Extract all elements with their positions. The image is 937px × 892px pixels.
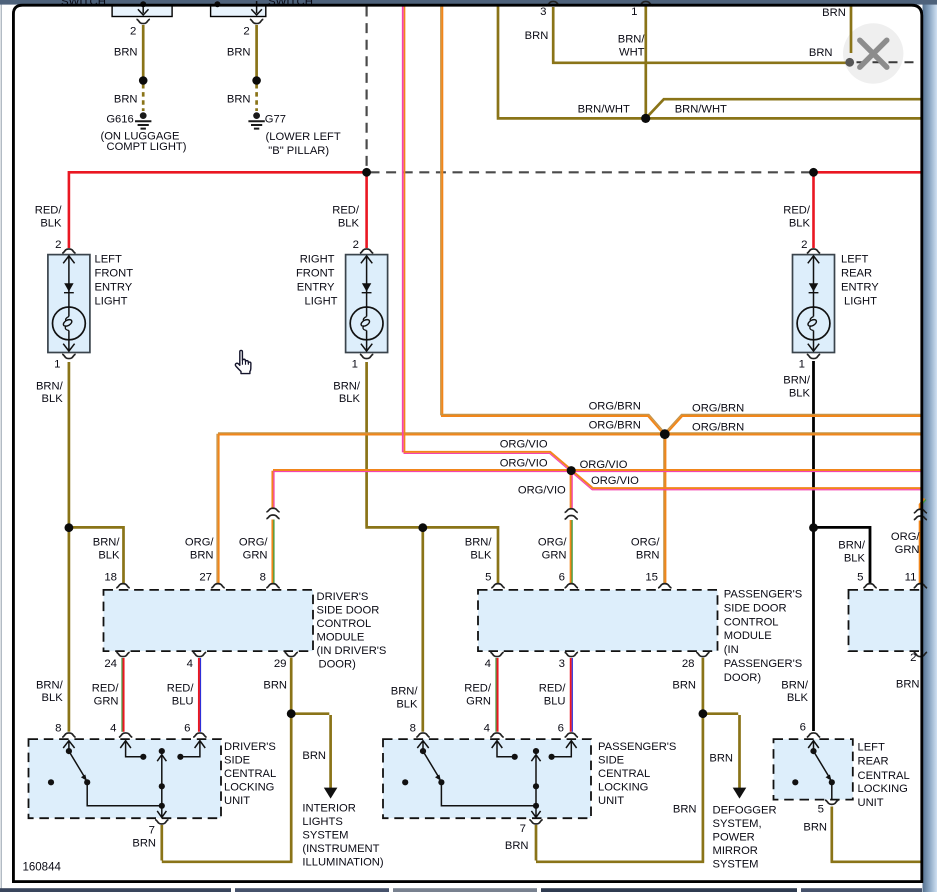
svg-text:BRN: BRN xyxy=(227,47,251,59)
svg-text:BLK: BLK xyxy=(844,553,866,565)
svg-text:ORG/BRN: ORG/BRN xyxy=(589,401,641,413)
svg-text:2: 2 xyxy=(130,26,136,38)
wire BRN passenger pin28 to defogger and pin7 loop xyxy=(536,658,740,862)
svg-text:BRN/: BRN/ xyxy=(838,540,866,552)
arrow to interior lights system xyxy=(324,788,338,799)
svg-text:UNIT: UNIT xyxy=(858,797,884,809)
svg-text:BRN: BRN xyxy=(822,7,846,19)
svg-text:REAR: REAR xyxy=(841,268,872,280)
svg-text:POWER: POWER xyxy=(713,832,755,844)
svg-text:BRN: BRN xyxy=(114,47,138,59)
svg-text:(IN DRIVER'S: (IN DRIVER'S xyxy=(317,645,387,657)
svg-text:FRONT: FRONT xyxy=(296,268,335,280)
left screen edge line xyxy=(1,0,2,892)
right blue gradient strip xyxy=(923,0,937,892)
wire BRN/WHT from pin 1 down xyxy=(644,6,647,117)
svg-text:1: 1 xyxy=(54,359,60,371)
wire RED/BLU driver module pin4 to locking pin6 xyxy=(198,658,200,732)
svg-text:LOCKING: LOCKING xyxy=(224,782,274,794)
svg-text:BRN: BRN xyxy=(525,30,549,42)
lamp L3 left rear entry light xyxy=(793,249,835,359)
svg-text:8: 8 xyxy=(55,723,61,735)
node junction BRN driver xyxy=(287,709,296,718)
svg-text:BRN/: BRN/ xyxy=(93,537,121,549)
ground G616 xyxy=(135,112,151,128)
svg-text:LIGHTS: LIGHTS xyxy=(302,816,342,828)
wire BRN/BLK right front light to passenger module/locking xyxy=(365,362,498,732)
svg-text:RED/: RED/ xyxy=(167,683,195,695)
inline connector on ORG wire at right module pin11 xyxy=(914,509,927,520)
node junction BRN passenger xyxy=(699,709,708,718)
svg-text:BLK: BLK xyxy=(42,692,64,704)
svg-text:G616: G616 xyxy=(106,114,133,126)
svg-text:SYSTEM: SYSTEM xyxy=(713,859,759,871)
locking unit K3 left rear central locking unit xyxy=(774,733,853,804)
svg-text:FRONT: FRONT xyxy=(95,268,134,280)
svg-text:2: 2 xyxy=(55,239,61,251)
svg-text:BLU: BLU xyxy=(544,696,566,708)
svg-text:REAR: REAR xyxy=(858,756,889,768)
svg-text:160844: 160844 xyxy=(23,862,62,874)
svg-text:(INSTRUMENT: (INSTRUMENT xyxy=(302,843,379,855)
svg-text:LIGHT: LIGHT xyxy=(305,296,338,308)
mouse cursor (hand pointer) xyxy=(235,350,251,373)
svg-text:CONTROL: CONTROL xyxy=(317,618,372,630)
svg-text:ORG/BRN: ORG/BRN xyxy=(692,403,744,415)
svg-text:1: 1 xyxy=(631,6,637,18)
svg-text:SIDE: SIDE xyxy=(224,755,250,767)
svg-text:BLK: BLK xyxy=(98,550,120,562)
bottom next-page segments xyxy=(0,888,231,892)
pin 2 connector switch S1 xyxy=(137,19,150,23)
svg-text:GRN: GRN xyxy=(466,696,491,708)
svg-text:BRN: BRN xyxy=(803,822,827,834)
svg-text:BRN/: BRN/ xyxy=(333,381,361,393)
svg-text:BRN: BRN xyxy=(190,550,214,562)
wire BRN/WHT from top left vertical xyxy=(497,6,922,118)
wire ORG/VIO drop to passenger module pin6 connector xyxy=(570,471,572,509)
lamp L2 right front entry light xyxy=(346,249,388,359)
svg-text:ORG/BRN: ORG/BRN xyxy=(692,422,744,434)
svg-text:DRIVER'S: DRIVER'S xyxy=(317,591,369,603)
svg-text:BRN/WHT: BRN/WHT xyxy=(578,104,630,116)
svg-text:BRN/: BRN/ xyxy=(465,537,493,549)
node junction dot switch2 xyxy=(252,76,261,85)
svg-text:BLK: BLK xyxy=(42,393,64,405)
svg-text:G77: G77 xyxy=(265,114,286,126)
wire BRN/BLK left front light to driver module/locking xyxy=(69,362,124,732)
svg-text:BRN: BRN xyxy=(636,550,660,562)
svg-text:UNIT: UNIT xyxy=(598,795,624,807)
svg-text:PASSENGER'S: PASSENGER'S xyxy=(724,589,802,601)
svg-text:SIDE: SIDE xyxy=(598,755,624,767)
svg-text:BRN/: BRN/ xyxy=(781,680,809,692)
svg-text:BRN: BRN xyxy=(809,47,833,59)
svg-text:BLU: BLU xyxy=(172,696,194,708)
svg-text:ORG/: ORG/ xyxy=(239,537,268,549)
svg-text:RED/: RED/ xyxy=(92,683,120,695)
svg-text:CENTRAL: CENTRAL xyxy=(858,770,910,782)
svg-text:ORG/: ORG/ xyxy=(185,537,214,549)
svg-text:LIGHT: LIGHT xyxy=(95,296,128,308)
wire ORG/GRN to driver module pin8 xyxy=(271,520,273,584)
wire RED/GRN driver module pin24 to locking pin4 xyxy=(121,658,123,732)
svg-text:BRN: BRN xyxy=(302,750,326,762)
svg-text:GRN: GRN xyxy=(895,544,920,556)
svg-text:BLK: BLK xyxy=(339,393,361,405)
svg-text:BRN/: BRN/ xyxy=(618,34,646,46)
svg-text:24: 24 xyxy=(104,658,117,670)
svg-text:BLK: BLK xyxy=(396,699,418,711)
svg-text:2: 2 xyxy=(801,239,807,251)
svg-text:ORG/VIO: ORG/VIO xyxy=(580,459,628,471)
svg-text:1: 1 xyxy=(799,359,805,371)
module U3 right (cut off) door control module xyxy=(849,590,923,651)
svg-text:LEFT: LEFT xyxy=(858,742,886,754)
svg-text:5: 5 xyxy=(857,572,863,584)
svg-text:BLK: BLK xyxy=(470,550,492,562)
svg-text:ORG/: ORG/ xyxy=(631,537,660,549)
svg-text:4: 4 xyxy=(187,658,193,670)
svg-text:7: 7 xyxy=(520,823,526,835)
node junction red/dashed left xyxy=(362,168,371,177)
svg-text:5: 5 xyxy=(818,804,824,816)
svg-text:BLK: BLK xyxy=(338,218,360,230)
svg-text:BRN/: BRN/ xyxy=(783,375,811,387)
wire BRN from pin 3 to right xyxy=(552,7,847,63)
wire dashed continuation top vertical xyxy=(366,7,368,171)
wire ORG/GRN to passenger module pin6 xyxy=(570,520,572,584)
svg-text:ORG/VIO: ORG/VIO xyxy=(500,439,548,451)
wire BRN dashed to ground G77 xyxy=(255,84,258,111)
locking unit K1 driver's side central locking unit xyxy=(29,733,222,824)
svg-text:BRN: BRN xyxy=(505,840,529,852)
svg-text:6: 6 xyxy=(184,723,190,735)
svg-text:UNIT: UNIT xyxy=(224,795,250,807)
svg-text:SIDE DOOR: SIDE DOOR xyxy=(724,603,787,615)
node junction BRN/BLK middle xyxy=(418,523,427,532)
svg-text:27: 27 xyxy=(199,572,212,584)
svg-text:BRN: BRN xyxy=(673,804,697,816)
svg-text:CENTRAL: CENTRAL xyxy=(598,768,650,780)
wire ORG/VIO drop to driver module pin8 connector xyxy=(271,471,273,509)
svg-text:RED/: RED/ xyxy=(539,683,567,695)
wire BRN dashed to ground G616 xyxy=(142,84,145,111)
wire BRN from top edge to gray node xyxy=(850,6,853,53)
node junction red/dashed right xyxy=(809,168,818,177)
svg-text:3: 3 xyxy=(559,658,565,670)
node junction BRN/WHT xyxy=(641,114,650,123)
node junction BRN/BLK rear xyxy=(809,523,818,532)
wire ORG/BRN vertical to passenger module pin15 xyxy=(663,434,665,583)
svg-text:WHT: WHT xyxy=(619,47,645,59)
svg-text:BRN: BRN xyxy=(132,838,156,850)
wire BRN from switch 1 pin 2 xyxy=(142,25,145,81)
svg-text:28: 28 xyxy=(682,658,695,670)
pin 2 connector switch S2 xyxy=(250,19,263,23)
wire RED/BLK feed right section xyxy=(814,172,922,248)
wire BRN left rear pin5 to right border xyxy=(831,807,922,862)
svg-text:CONTROL: CONTROL xyxy=(724,617,779,629)
svg-text:ENTRY: ENTRY xyxy=(297,282,335,294)
wire ORG/VIO junction to lower-right run xyxy=(572,470,922,488)
svg-text:6: 6 xyxy=(800,722,806,734)
switch S2 (cut off at top) xyxy=(211,6,266,17)
svg-text:RED/: RED/ xyxy=(464,683,492,695)
svg-text:ORG/BRN: ORG/BRN xyxy=(589,420,641,432)
wire BRN/BLK left rear light (black) xyxy=(814,361,871,731)
close button X glyph xyxy=(860,40,887,67)
svg-text:ORG/: ORG/ xyxy=(891,531,920,543)
svg-text:BRN: BRN xyxy=(227,94,251,106)
svg-text:8: 8 xyxy=(260,572,266,584)
svg-text:SYSTEM: SYSTEM xyxy=(302,830,348,842)
svg-text:BLK: BLK xyxy=(789,388,811,400)
svg-text:LEFT: LEFT xyxy=(95,254,123,266)
svg-text:CENTRAL: CENTRAL xyxy=(224,768,276,780)
svg-text:ENTRY: ENTRY xyxy=(95,282,133,294)
wire ORG/VIO vertical from top xyxy=(402,6,404,452)
close button circle xyxy=(843,23,903,83)
svg-text:SYSTEM,: SYSTEM, xyxy=(713,818,762,830)
locking unit K2 passenger's side central locking unit xyxy=(383,733,591,824)
wire ORG/BRN junction to upper-right run xyxy=(664,414,921,433)
wire ORG/GRN from border to right module pin11 xyxy=(920,499,925,584)
svg-text:(IN: (IN xyxy=(724,644,739,656)
svg-text:LOCKING: LOCKING xyxy=(858,783,908,795)
svg-text:GRN: GRN xyxy=(542,550,567,562)
svg-text:ORG/VIO: ORG/VIO xyxy=(591,475,639,487)
svg-text:11: 11 xyxy=(905,572,917,584)
svg-text:DEFOGGER: DEFOGGER xyxy=(713,805,777,817)
svg-text:BRN/: BRN/ xyxy=(36,381,64,393)
node junction ORG/BRN xyxy=(660,429,670,439)
svg-text:BRN: BRN xyxy=(672,680,696,692)
pin 1 connector top edge xyxy=(639,1,652,5)
svg-text:MIRROR: MIRROR xyxy=(713,845,758,857)
wire BRN/WHT diagonal branch and upper run xyxy=(646,99,922,118)
svg-text:RED/: RED/ xyxy=(35,205,63,217)
svg-text:18: 18 xyxy=(104,572,117,584)
wire RED/BLU passenger module pin3 to locking pin6 xyxy=(570,658,572,732)
wire ORG/VIO straight run from x273 into junction xyxy=(273,469,922,471)
svg-text:BRN: BRN xyxy=(263,680,287,692)
svg-text:LOCKING: LOCKING xyxy=(598,782,648,794)
svg-text:4: 4 xyxy=(484,723,490,735)
ground G77 xyxy=(248,112,264,128)
svg-text:LEFT: LEFT xyxy=(841,254,869,266)
svg-text:8: 8 xyxy=(410,723,416,735)
arrow to defogger system xyxy=(733,788,747,799)
node junction dot switch1 xyxy=(139,76,148,85)
svg-text:4: 4 xyxy=(485,658,491,670)
svg-text:2: 2 xyxy=(243,26,249,38)
svg-text:ORG/: ORG/ xyxy=(538,537,567,549)
svg-text:(LOWER LEFT: (LOWER LEFT xyxy=(266,131,341,143)
svg-text:SIDE DOOR: SIDE DOOR xyxy=(317,605,380,617)
svg-text:2: 2 xyxy=(910,652,916,664)
node junction BRN/BLK left xyxy=(65,523,74,532)
svg-text:RED/: RED/ xyxy=(783,205,811,217)
svg-text:ORG/VIO: ORG/VIO xyxy=(518,485,566,497)
svg-text:3: 3 xyxy=(540,6,546,18)
inline connector on ORG wire at driver pin8 xyxy=(266,508,279,519)
svg-text:DRIVER'S: DRIVER'S xyxy=(224,741,276,753)
svg-text:BLK: BLK xyxy=(789,218,811,230)
svg-text:BRN: BRN xyxy=(709,753,733,765)
svg-text:BLK: BLK xyxy=(787,692,809,704)
inline connector on ORG wire at passenger pin6 xyxy=(565,509,578,520)
svg-text:4: 4 xyxy=(110,723,116,735)
wire dashed continuation horizontal mid xyxy=(370,171,812,173)
svg-text:BRN/WHT: BRN/WHT xyxy=(675,104,727,116)
svg-text:BLK: BLK xyxy=(40,218,62,230)
svg-text:RED/: RED/ xyxy=(332,205,360,217)
node junction ORG/VIO xyxy=(567,466,576,475)
svg-text:29: 29 xyxy=(274,658,287,670)
svg-text:PASSENGER'S: PASSENGER'S xyxy=(724,658,802,670)
module U1 driver's side door control module xyxy=(104,590,314,651)
svg-text:RIGHT: RIGHT xyxy=(300,254,335,266)
svg-text:15: 15 xyxy=(645,572,658,584)
svg-text:GRN: GRN xyxy=(94,696,119,708)
wire ORG/BRN vertical from top xyxy=(440,6,442,415)
wire RED/BLK feed left section xyxy=(68,172,367,248)
wire ORG/BRN lower run from driver pin27 to right border xyxy=(218,432,922,434)
pin 3 connector top edge xyxy=(547,1,560,5)
svg-text:ENTRY: ENTRY xyxy=(841,282,879,294)
svg-text:INTERIOR: INTERIOR xyxy=(302,803,355,815)
svg-text:COMPT LIGHT): COMPT LIGHT) xyxy=(107,141,187,153)
svg-text:6: 6 xyxy=(559,572,565,584)
switch S1 (cut off at top) xyxy=(112,6,172,17)
svg-text:MODULE: MODULE xyxy=(317,632,365,644)
wire BRN driver pin29 to interior lights and pin7 loop xyxy=(162,658,331,862)
svg-text:BRN/: BRN/ xyxy=(391,686,419,698)
svg-text:ILLUMINATION): ILLUMINATION) xyxy=(302,857,383,869)
wire ORG/BRN upper-left run into junction xyxy=(441,414,665,433)
wire RED/GRN passenger module pin4 to locking pin4 xyxy=(495,658,497,732)
svg-text:7: 7 xyxy=(149,825,155,837)
svg-text:BRN/: BRN/ xyxy=(36,680,64,692)
svg-text:PASSENGER'S: PASSENGER'S xyxy=(598,741,676,753)
svg-text:BRN: BRN xyxy=(896,679,920,691)
svg-text:LIGHT: LIGHT xyxy=(844,296,877,308)
svg-text:DOOR): DOOR) xyxy=(319,659,357,671)
wire dashed continuation to right border xyxy=(857,61,922,63)
svg-text:"B" PILLAR): "B" PILLAR) xyxy=(268,145,329,157)
wire ORG/BRN vertical to driver module pin27 xyxy=(216,434,218,584)
node gray connector dot xyxy=(845,58,854,67)
svg-text:1: 1 xyxy=(352,359,358,371)
svg-text:ORG/VIO: ORG/VIO xyxy=(500,458,548,470)
svg-text:5: 5 xyxy=(485,572,491,584)
lamp L1 left front entry light xyxy=(48,249,90,359)
wire ORG/VIO upper run into junction xyxy=(404,452,572,470)
svg-text:6: 6 xyxy=(558,723,564,735)
svg-text:DOOR): DOOR) xyxy=(724,672,762,684)
top slate bar (bottom of panel above) xyxy=(0,0,937,5)
wire BRN from switch 2 pin 2 xyxy=(255,25,258,81)
svg-text:BRN: BRN xyxy=(114,94,138,106)
svg-text:GRN: GRN xyxy=(243,550,268,562)
svg-text:2: 2 xyxy=(353,239,359,251)
svg-text:MODULE: MODULE xyxy=(724,630,772,642)
module U2 passenger's side door control module xyxy=(478,590,718,651)
